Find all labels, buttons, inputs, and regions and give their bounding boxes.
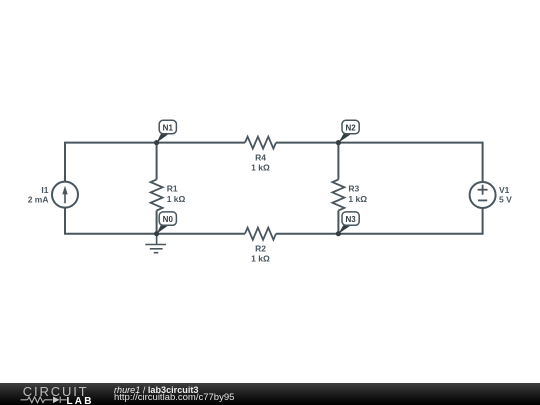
label R3 value	[348, 184, 367, 204]
label R2 value	[251, 244, 270, 264]
wire bottom-right segment	[276, 208, 483, 234]
wire R1 bottom lead	[156, 211, 158, 234]
node N0	[157, 212, 177, 234]
wire R3 bottom lead	[337, 211, 339, 234]
svg-text:2 mA: 2 mA	[28, 194, 49, 204]
svg-text:N0: N0	[163, 215, 174, 224]
svg-text:R4: R4	[255, 153, 266, 163]
resistor R1	[151, 180, 163, 211]
svg-text:I1: I1	[41, 185, 48, 195]
svg-text:1 kΩ: 1 kΩ	[167, 194, 186, 204]
label I1 value	[28, 185, 49, 205]
junction dot N2	[336, 140, 341, 145]
wire R1 top lead	[156, 143, 158, 180]
svg-text:V1: V1	[499, 185, 510, 195]
svg-text:1 kΩ: 1 kΩ	[251, 162, 270, 172]
node N2	[338, 120, 359, 142]
junction dot N3	[336, 231, 341, 236]
svg-text:5 V: 5 V	[499, 194, 512, 204]
wire bottom-left segment	[65, 208, 245, 234]
junction dot N1	[154, 140, 159, 145]
svg-text:1 kΩ: 1 kΩ	[251, 253, 270, 263]
wire top-left segment	[65, 143, 245, 182]
svg-text:LAB: LAB	[67, 396, 94, 405]
voltage source V1	[470, 182, 496, 208]
wire R3 top lead	[337, 143, 339, 180]
resistor R3	[332, 180, 344, 211]
current source I1	[52, 182, 78, 208]
label R1 value	[167, 184, 186, 204]
svg-text:N2: N2	[345, 123, 356, 132]
CircuitLab logo	[0, 383, 110, 405]
svg-text:R3: R3	[348, 184, 359, 194]
svg-text:1 kΩ: 1 kΩ	[348, 194, 367, 204]
resistor R2	[245, 228, 276, 240]
ground	[145, 234, 166, 253]
resistor R4	[245, 137, 276, 149]
node N1	[157, 120, 177, 142]
svg-text:N1: N1	[163, 123, 174, 132]
svg-text:R2: R2	[255, 244, 266, 254]
node N3	[338, 212, 359, 234]
svg-text:N3: N3	[345, 215, 356, 224]
label R4 value	[251, 153, 270, 173]
junction dot N0	[154, 231, 159, 236]
label V1 value	[499, 185, 512, 205]
svg-text:R1: R1	[167, 184, 178, 194]
wire top-right segment	[276, 143, 483, 183]
